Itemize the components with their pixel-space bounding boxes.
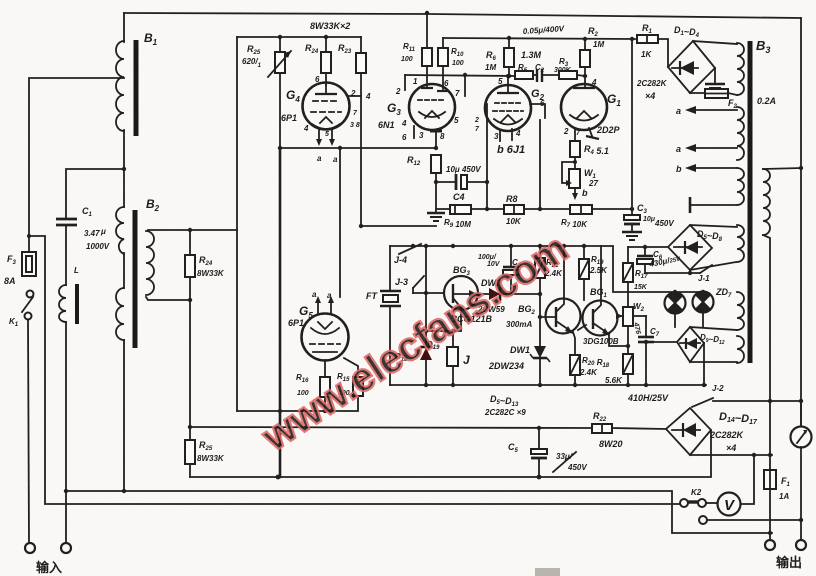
transformer B3 primary coil bbox=[737, 43, 744, 95]
fuse F1 bbox=[764, 470, 776, 489]
TOP RIGHT RECTIFIER bbox=[443, 35, 737, 98]
wire R25b bottom bbox=[189, 464, 191, 477]
resistor R5 bbox=[515, 71, 533, 79]
bridge D5-D8 bbox=[668, 225, 712, 270]
G4 heater pins bbox=[318, 129, 320, 140]
transformer B3 winding D9D12b bbox=[737, 336, 744, 363]
diode D18 bbox=[420, 346, 432, 349]
resistor R1 bbox=[637, 35, 658, 43]
node top R25a bbox=[278, 35, 282, 39]
wire rail y385 bbox=[390, 384, 706, 386]
wire box top bbox=[237, 36, 361, 38]
resistor R7 bbox=[570, 205, 592, 214]
wire rail y491 bbox=[66, 491, 772, 533]
tube G1 bbox=[561, 84, 607, 130]
G3 pin4 bar bbox=[413, 126, 415, 138]
tube G3 bbox=[409, 84, 455, 130]
G1 cathode pins bbox=[574, 128, 576, 141]
node top R24a bbox=[324, 35, 328, 39]
wire y247 line bbox=[628, 246, 668, 248]
bridge D9D12 wires bbox=[690, 327, 737, 330]
wire B2 secondary bottom bbox=[146, 297, 190, 300]
ammeter A bbox=[791, 427, 812, 448]
ground C3 bbox=[622, 231, 642, 234]
resistor R19 bbox=[583, 246, 585, 259]
wire B+ rail y38 bbox=[443, 38, 637, 39]
node y148 x436 bbox=[434, 146, 438, 150]
node R24b bottom bbox=[188, 298, 192, 302]
terminal out1 bbox=[765, 540, 775, 550]
switch J-1 bbox=[700, 265, 712, 273]
terminal K2 lower bbox=[699, 516, 707, 524]
capacitor C6 bbox=[643, 245, 647, 249]
wire box left wall bbox=[236, 37, 238, 411]
resistor R24a bbox=[321, 52, 331, 73]
capacitor C7 bbox=[633, 315, 646, 317]
potentiometer W1 bbox=[569, 169, 580, 188]
G2 screen bracket bbox=[530, 104, 545, 118]
wire y401 bbox=[713, 400, 801, 402]
G2 right wall bbox=[539, 120, 541, 209]
wire C1 bottom to choke bbox=[65, 226, 67, 285]
node F3 top junction bbox=[27, 234, 31, 238]
wire choke to bottom rail bbox=[65, 322, 67, 543]
resistor R4 bbox=[570, 141, 580, 157]
node y226 bbox=[359, 224, 363, 228]
wire mains left vertical bbox=[29, 78, 124, 252]
node C5 rail477 bbox=[537, 475, 542, 480]
resistor R9 bbox=[450, 205, 471, 214]
switch J-4 bbox=[399, 244, 421, 254]
resistor R20 bbox=[570, 355, 580, 375]
node C1 top bbox=[122, 167, 126, 171]
resistor R17 bbox=[623, 263, 633, 282]
resistor R23a bbox=[356, 53, 366, 73]
capacitor C1 bbox=[56, 218, 77, 221]
wire R23a leads / right wall bbox=[360, 37, 362, 53]
choke L coil bbox=[59, 285, 66, 322]
wire y455 bbox=[690, 454, 772, 456]
wire collector line y331 bbox=[426, 311, 461, 331]
wire y273 J-1 line bbox=[645, 272, 700, 274]
transformer B2 secondary coil bbox=[146, 231, 154, 295]
node R24b top bbox=[188, 228, 192, 232]
switch K2 bbox=[680, 499, 688, 507]
wire heater rail y148 bbox=[280, 147, 436, 149]
G2 bottom pins bbox=[499, 130, 501, 141]
switch K1 bbox=[27, 291, 34, 298]
lamp ZD1 bbox=[665, 293, 686, 314]
wire x280 thick cathode line bbox=[279, 148, 282, 477]
switch J-2 bbox=[692, 398, 713, 407]
lamp ZD2 bbox=[693, 292, 714, 313]
fuse F2 bbox=[705, 89, 728, 98]
bridge D9-D12 bbox=[677, 327, 704, 362]
TUBES G3 G2 G1 bbox=[405, 11, 642, 240]
wire B1-B2 link bbox=[123, 130, 125, 207]
wire C3 drop bbox=[631, 39, 633, 215]
node x280 rail477 bbox=[276, 475, 281, 480]
tap arrow a1 bbox=[696, 109, 737, 111]
wire G5 cathode bbox=[324, 360, 326, 377]
wire bridge top to B3 bbox=[693, 41, 737, 44]
crystal FT bbox=[380, 290, 401, 293]
resistor R15 bbox=[353, 377, 363, 396]
wire BG2 emitter to R20 bbox=[573, 332, 575, 355]
terminal in1 bbox=[25, 543, 35, 553]
zener DW1 bbox=[534, 346, 546, 358]
transformer B3 winding a bbox=[737, 107, 744, 160]
wire top border bbox=[124, 13, 801, 18]
terminal in2 bbox=[61, 543, 71, 553]
tube G4 bbox=[303, 83, 350, 130]
resistor R25a variable bbox=[275, 52, 285, 73]
resistor R8 bbox=[504, 205, 524, 214]
wire G2 left wall bbox=[486, 104, 488, 209]
OUTPUT SECTION bbox=[22, 219, 812, 576]
wire B1 top lead bbox=[123, 13, 125, 42]
wire plate rail y75 bbox=[405, 75, 515, 76]
node rail427 R25b bbox=[188, 425, 192, 429]
capacitor C8 bbox=[510, 246, 512, 266]
wire R1 to bridge bbox=[658, 39, 668, 67]
tap arrow a2 bbox=[696, 147, 737, 149]
wire bypass x45 bbox=[29, 236, 680, 504]
transistor BG3 bbox=[444, 276, 478, 310]
transformer B1 primary coil bbox=[116, 41, 124, 131]
wire B3 secondary bottom down bbox=[763, 235, 770, 455]
resistor R11 bbox=[422, 48, 432, 66]
REGULATOR SECTION bbox=[390, 225, 737, 387]
wire B2 lower lead bbox=[123, 253, 125, 288]
wire F2 to B3 bbox=[728, 93, 737, 95]
capacitor C4 bbox=[436, 181, 454, 183]
wire bridge bottom to F2 bbox=[690, 92, 705, 94]
wire R24a leads bbox=[325, 37, 327, 52]
TRANSFORMERS bbox=[59, 40, 803, 455]
transformer B3 winding D9D12a bbox=[737, 292, 744, 330]
capacitor C3 bbox=[624, 215, 640, 220]
wire B2 left bottom to rail bbox=[123, 340, 125, 491]
resistor R18 bbox=[623, 354, 633, 374]
wire C1 branch bbox=[66, 169, 124, 218]
resistor R16 bbox=[320, 377, 330, 397]
wire rail y246 bbox=[390, 246, 703, 292]
wire y226 to ground bbox=[361, 225, 436, 227]
transistor BG2 bbox=[546, 299, 581, 334]
wire x426 vertical bbox=[425, 246, 427, 346]
resistor R25b bbox=[185, 440, 195, 464]
node B2 rail junction bbox=[122, 489, 126, 493]
resistor R12 bbox=[431, 155, 441, 173]
transformer B2 core bbox=[133, 210, 138, 348]
node y148 x340 bbox=[338, 146, 342, 150]
transformer B3 right secondary coil bbox=[763, 169, 770, 235]
transformer B1 core bbox=[134, 40, 139, 136]
node y148 x280 bbox=[278, 146, 282, 150]
switch J-3 bbox=[413, 276, 424, 288]
UPPER LEFT BOX bbox=[237, 35, 438, 477]
transformer B3 core bbox=[748, 41, 753, 363]
transformer B3 winding D5D8 bbox=[737, 225, 744, 262]
resistor R6 bbox=[504, 48, 514, 67]
resistor R2 bbox=[580, 50, 590, 67]
resistor R21 bbox=[539, 246, 541, 258]
transformer B2 lower-left coil bbox=[116, 288, 124, 340]
G3 half box bbox=[404, 75, 406, 90]
tube G5 bbox=[302, 314, 349, 361]
fuse F3 bbox=[22, 252, 36, 276]
wire R17 W2 chain bbox=[627, 247, 629, 263]
bridge D14-D17 bbox=[666, 408, 711, 455]
G3 cathode bar and lead bbox=[430, 130, 442, 133]
choke L core bbox=[75, 284, 79, 324]
node rail491 left bbox=[64, 489, 68, 493]
transistor BG1 bbox=[583, 301, 618, 336]
resistor R10 bbox=[438, 48, 448, 66]
relay J bbox=[452, 331, 454, 347]
terminal out2 bbox=[796, 540, 806, 550]
G5 heater arrows bbox=[317, 302, 319, 313]
tap T terminal bbox=[690, 204, 737, 206]
wire R24b leads bbox=[189, 230, 191, 255]
watermark bbox=[254, 226, 576, 460]
G4 pin2 bracket bbox=[349, 95, 361, 97]
tap arrow b bbox=[696, 167, 737, 169]
zener DW2 bbox=[477, 293, 540, 295]
capacitor C5 bbox=[537, 426, 541, 430]
transformer B2 primary coil bbox=[116, 207, 124, 254]
wire right border bbox=[800, 18, 802, 426]
potentiometer W2 bbox=[623, 307, 633, 326]
wire BG3 base line bbox=[413, 292, 444, 294]
wire x340 vertical bbox=[339, 148, 341, 297]
wire R25a leads bbox=[279, 37, 281, 52]
voltmeter V bbox=[718, 493, 741, 516]
transformer B3 winding b bbox=[737, 168, 744, 205]
wire box bottom y411 bbox=[237, 396, 358, 411]
resistor R24b bbox=[185, 255, 195, 277]
resistor R22 bbox=[592, 424, 612, 433]
wire K1 to input terminal bbox=[28, 320, 29, 543]
wire B2 secondary top bbox=[148, 229, 237, 231]
caption box bbox=[535, 568, 560, 576]
tube G2 bbox=[485, 85, 531, 131]
G3 pin7 stub bbox=[464, 75, 466, 96]
W2 wiper bbox=[617, 315, 622, 317]
bridge D1-D4 bbox=[668, 41, 715, 93]
ground D1D4 bbox=[714, 68, 716, 83]
TOP AMPLIFIER SECTION bbox=[268, 51, 401, 413]
node x280 y411 bbox=[278, 409, 282, 413]
resistor R3 bbox=[559, 71, 577, 79]
wire rail y427 bbox=[190, 427, 592, 428]
wire BG1 emitter to R18 bbox=[609, 334, 627, 346]
ground G3 bbox=[427, 212, 445, 214]
capacitor C2 bbox=[533, 74, 537, 76]
wire B3 secondary top to border bbox=[763, 168, 801, 169]
wire rail y477 bbox=[190, 430, 711, 477]
